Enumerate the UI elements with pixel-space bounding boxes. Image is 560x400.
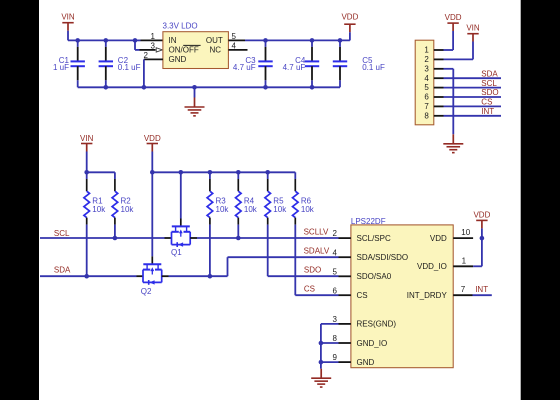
svg-text:10k: 10k xyxy=(216,205,230,214)
svg-text:8: 8 xyxy=(333,334,338,343)
svg-text:4: 4 xyxy=(333,248,338,257)
svg-text:1: 1 xyxy=(151,32,156,41)
svg-text:IN: IN xyxy=(169,36,177,45)
svg-text:10: 10 xyxy=(461,228,470,237)
svg-text:1: 1 xyxy=(462,256,467,265)
svg-text:10k: 10k xyxy=(273,205,287,214)
svg-text:SDA: SDA xyxy=(54,265,71,274)
svg-text:5: 5 xyxy=(333,267,338,276)
svg-text:SDA: SDA xyxy=(481,69,498,78)
svg-text:ON/OFF: ON/OFF xyxy=(169,46,199,55)
svg-text:SCL: SCL xyxy=(481,79,497,88)
svg-text:4.7 uF: 4.7 uF xyxy=(283,63,306,72)
svg-text:GND: GND xyxy=(357,358,375,367)
svg-text:VDD: VDD xyxy=(341,12,358,21)
svg-text:10k: 10k xyxy=(244,205,258,214)
svg-text:SDA/SDI/SDO: SDA/SDI/SDO xyxy=(357,253,409,262)
svg-text:7: 7 xyxy=(461,285,466,294)
svg-text:6: 6 xyxy=(424,93,429,102)
svg-text:SCL: SCL xyxy=(54,229,70,238)
svg-text:INT: INT xyxy=(481,107,494,116)
svg-text:0.1 uF: 0.1 uF xyxy=(362,63,385,72)
svg-text:Q2: Q2 xyxy=(141,287,152,296)
svg-text:CS: CS xyxy=(304,285,315,294)
svg-text:10k: 10k xyxy=(92,205,106,214)
svg-text:VDD_IO: VDD_IO xyxy=(417,262,447,271)
svg-text:SDO: SDO xyxy=(304,266,321,275)
svg-text:6: 6 xyxy=(333,286,338,295)
svg-text:2: 2 xyxy=(333,229,338,238)
svg-text:VDD: VDD xyxy=(445,13,462,22)
svg-text:SDALV: SDALV xyxy=(304,247,330,256)
svg-text:1: 1 xyxy=(424,46,429,55)
svg-text:10k: 10k xyxy=(301,205,315,214)
svg-text:9: 9 xyxy=(333,353,338,362)
svg-text:SDO/SA0: SDO/SA0 xyxy=(357,272,392,281)
svg-text:VIN: VIN xyxy=(466,24,480,33)
svg-text:INT_DRDY: INT_DRDY xyxy=(407,291,448,300)
svg-text:2: 2 xyxy=(424,55,429,64)
svg-text:3.3V LDO: 3.3V LDO xyxy=(163,22,198,31)
svg-text:5: 5 xyxy=(424,83,429,92)
svg-text:SDO: SDO xyxy=(481,88,498,97)
svg-text:0.1 uF: 0.1 uF xyxy=(118,63,141,72)
svg-text:SCL/SPC: SCL/SPC xyxy=(357,234,391,243)
svg-text:4.7 uF: 4.7 uF xyxy=(233,63,256,72)
svg-text:INT: INT xyxy=(475,285,488,294)
svg-text:8: 8 xyxy=(424,111,429,120)
svg-text:VDD: VDD xyxy=(144,134,161,143)
svg-text:NC: NC xyxy=(209,46,221,55)
svg-text:4: 4 xyxy=(424,74,429,83)
svg-text:10k: 10k xyxy=(121,205,135,214)
svg-text:SCLLV: SCLLV xyxy=(304,228,329,237)
svg-text:RES(GND): RES(GND) xyxy=(357,320,397,329)
svg-text:3: 3 xyxy=(424,64,429,73)
svg-text:CS: CS xyxy=(481,98,492,107)
svg-text:Q1: Q1 xyxy=(171,248,182,257)
svg-text:3: 3 xyxy=(333,315,338,324)
svg-text:VIN: VIN xyxy=(80,134,94,143)
svg-text:VDD: VDD xyxy=(473,211,490,220)
svg-text:7: 7 xyxy=(424,102,429,111)
svg-text:GND: GND xyxy=(169,55,187,64)
svg-text:3: 3 xyxy=(151,41,156,50)
svg-text:OUT: OUT xyxy=(206,36,223,45)
svg-text:GND_IO: GND_IO xyxy=(357,339,388,348)
svg-text:1 uF: 1 uF xyxy=(53,63,69,72)
svg-text:CS: CS xyxy=(357,291,368,300)
svg-text:VDD: VDD xyxy=(430,234,447,243)
svg-text:VIN: VIN xyxy=(61,13,75,22)
